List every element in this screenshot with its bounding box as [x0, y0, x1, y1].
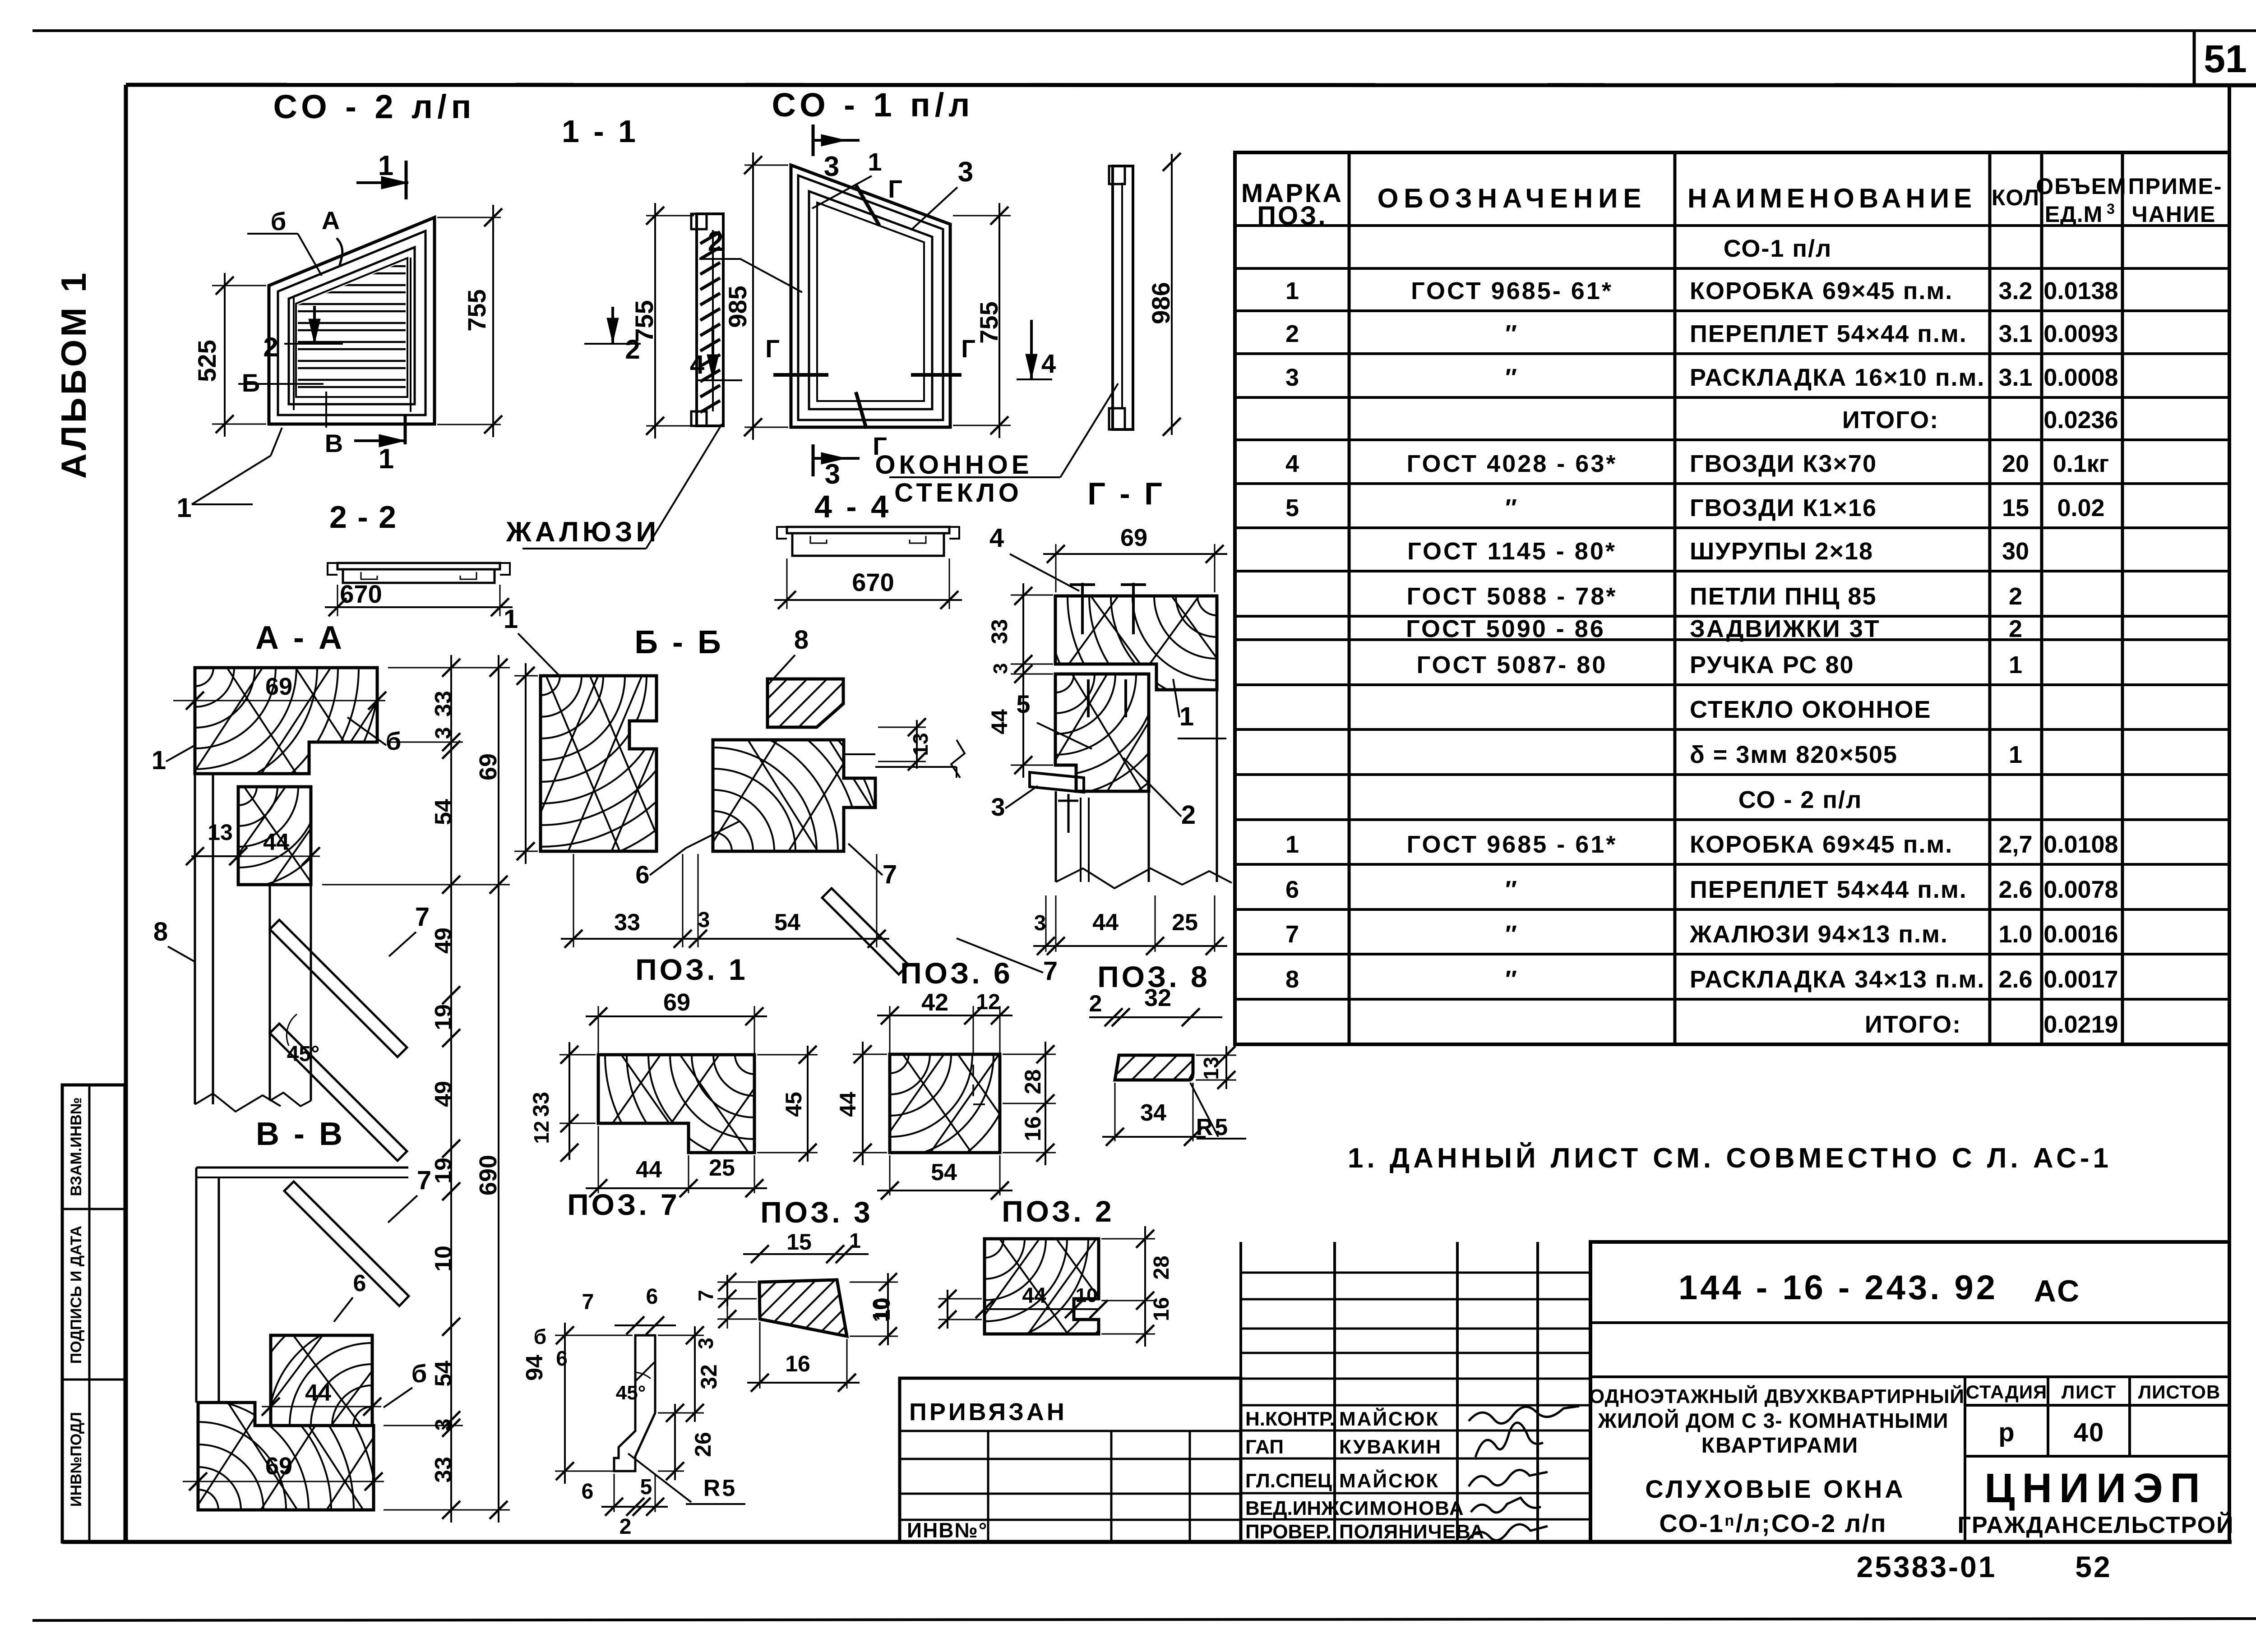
svg-text:3: 3 — [825, 459, 840, 490]
svg-text:ЛИСТ: ЛИСТ — [2062, 1381, 2117, 1403]
svg-text:1. ДАННЫЙ ЛИСТ СМ. СОВМЕСТНО С: 1. ДАННЫЙ ЛИСТ СМ. СОВМЕСТНО С Л. АС-1 — [1348, 1142, 2112, 1174]
svg-text:1: 1 — [152, 746, 166, 775]
svg-text:0.0017: 0.0017 — [2043, 966, 2118, 993]
svg-text:ГОСТ 9685 - 61*: ГОСТ 9685 - 61* — [1407, 831, 1618, 858]
svg-text:3: 3 — [698, 908, 710, 932]
svg-text:7: 7 — [582, 1290, 594, 1314]
svg-text:15: 15 — [786, 1229, 812, 1255]
svg-text:4: 4 — [690, 350, 704, 379]
svg-text:СЛУХОВЫЕ ОКНА: СЛУХОВЫЕ ОКНА — [1645, 1475, 1905, 1503]
svg-text:44: 44 — [835, 1092, 860, 1117]
svg-text:1: 1 — [379, 443, 394, 475]
svg-text:45°: 45° — [287, 1042, 320, 1066]
svg-text:2: 2 — [2009, 583, 2022, 610]
svg-text:15: 15 — [2002, 494, 2029, 521]
svg-text:32: 32 — [1144, 984, 1171, 1011]
svg-text:ОКОННОЕ: ОКОННОЕ — [875, 450, 1032, 480]
svg-text:755: 755 — [975, 301, 1003, 343]
svg-text:54: 54 — [430, 799, 457, 825]
svg-text:Б - Б: Б - Б — [634, 624, 723, 660]
svg-text:16: 16 — [1020, 1116, 1045, 1141]
svg-text:44: 44 — [987, 709, 1012, 734]
svg-text:49: 49 — [430, 928, 457, 954]
svg-text:7: 7 — [1043, 956, 1058, 986]
svg-text:28: 28 — [1020, 1069, 1045, 1094]
svg-text:13: 13 — [208, 820, 233, 845]
svg-text:54: 54 — [931, 1159, 957, 1186]
svg-text:52: 52 — [2075, 1550, 2112, 1583]
svg-text:0.0219: 0.0219 — [2043, 1011, 2118, 1038]
svg-text:3.2: 3.2 — [1998, 277, 2032, 305]
svg-text:985: 985 — [723, 286, 752, 328]
svg-text:2.6: 2.6 — [1998, 966, 2032, 993]
svg-text:28: 28 — [1150, 1255, 1174, 1279]
svg-text:ГОСТ 5087- 80: ГОСТ 5087- 80 — [1417, 651, 1608, 678]
svg-text:2: 2 — [1089, 991, 1102, 1017]
svg-text:ВЕД.ИНЖ: ВЕД.ИНЖ — [1245, 1497, 1339, 1519]
svg-text:ОДНОЭТАЖНЫЙ ДВУХКВАРТИРНЫЙ: ОДНОЭТАЖНЫЙ ДВУХКВАРТИРНЫЙ — [1589, 1384, 1965, 1407]
svg-text:1: 1 — [378, 150, 393, 181]
svg-text:АС: АС — [2034, 1274, 2081, 1308]
svg-text:КУВАКИН: КУВАКИН — [1339, 1436, 1442, 1458]
svg-text:30: 30 — [2002, 538, 2029, 565]
svg-text:13: 13 — [909, 733, 932, 756]
svg-text:р: р — [1998, 1418, 2014, 1447]
svg-text:1: 1 — [2009, 651, 2022, 678]
svg-text:2,7: 2,7 — [1998, 831, 2032, 858]
svg-text:69: 69 — [1120, 524, 1147, 551]
svg-text:7: 7 — [694, 1290, 717, 1301]
svg-text:1: 1 — [176, 493, 191, 523]
svg-text:б: б — [411, 1359, 427, 1388]
svg-text:ГВОЗДИ К3×70: ГВОЗДИ К3×70 — [1690, 450, 1877, 477]
svg-text:670: 670 — [340, 580, 382, 608]
svg-text:8: 8 — [794, 625, 809, 655]
svg-text:КОРОБКА 69×45 п.м.: КОРОБКА 69×45 п.м. — [1690, 831, 1953, 858]
svg-text:7: 7 — [883, 860, 897, 889]
svg-text:МАЙСЮК: МАЙСЮК — [1339, 1407, 1439, 1430]
svg-text:2: 2 — [619, 1515, 632, 1539]
svg-text:В - В: В - В — [256, 1116, 345, 1152]
svg-text:12: 12 — [530, 1121, 553, 1144]
svg-text:26: 26 — [690, 1432, 716, 1457]
svg-text:ПОЗ. 6: ПОЗ. 6 — [900, 956, 1013, 990]
svg-text:РАСКЛАДКА 34×13 п.м.: РАСКЛАДКА 34×13 п.м. — [1690, 966, 1985, 993]
svg-text:ПОЗ. 3: ПОЗ. 3 — [760, 1195, 873, 1229]
svg-text:986: 986 — [1146, 282, 1175, 324]
svg-text:Б: Б — [242, 369, 260, 397]
svg-text:44: 44 — [263, 829, 289, 855]
svg-text:45: 45 — [781, 1092, 806, 1117]
svg-text:2 - 2: 2 - 2 — [329, 499, 397, 535]
svg-text:3: 3 — [991, 793, 1005, 821]
svg-text:0.02: 0.02 — [2057, 494, 2104, 521]
svg-text:8: 8 — [153, 917, 168, 946]
svg-text:1: 1 — [504, 605, 518, 634]
svg-text:6: 6 — [1285, 876, 1299, 903]
svg-text:2: 2 — [708, 226, 723, 257]
svg-text:ПОЗ.: ПОЗ. — [1257, 201, 1327, 231]
svg-text:″: ″ — [1505, 966, 1519, 993]
svg-text:25383-01: 25383-01 — [1857, 1550, 1997, 1583]
svg-text:РУЧКА РС 80: РУЧКА РС 80 — [1690, 651, 1854, 678]
svg-text:0.0093: 0.0093 — [2043, 320, 2118, 347]
svg-text:8: 8 — [1285, 966, 1299, 993]
svg-text:МАЙСЮК: МАЙСЮК — [1339, 1469, 1439, 1492]
svg-text:ИТОГО:: ИТОГО: — [1865, 1011, 1961, 1038]
svg-text:ПЕРЕПЛЕТ 54×44 п.м.: ПЕРЕПЛЕТ 54×44 п.м. — [1690, 320, 1967, 347]
svg-text:3: 3 — [2107, 201, 2115, 217]
svg-text:СТАДИЯ: СТАДИЯ — [1966, 1381, 2047, 1403]
svg-text:13: 13 — [1199, 1057, 1223, 1080]
svg-text:ИНВ№°: ИНВ№° — [907, 1518, 988, 1542]
svg-text:Г: Г — [765, 334, 780, 363]
svg-text:″: ″ — [1505, 364, 1519, 391]
svg-text:3: 3 — [694, 1338, 717, 1349]
svg-text:10: 10 — [871, 1297, 894, 1320]
svg-text:40: 40 — [2074, 1418, 2105, 1447]
svg-text:5: 5 — [640, 1475, 652, 1499]
svg-text:10: 10 — [430, 1246, 457, 1272]
svg-text:670: 670 — [852, 568, 894, 596]
svg-text:33: 33 — [430, 691, 457, 717]
svg-text:3: 3 — [958, 157, 973, 188]
svg-text:ПРИМЕ-: ПРИМЕ- — [2128, 174, 2223, 199]
svg-text:ИТОГО:: ИТОГО: — [1842, 406, 1939, 434]
svg-text:2.6: 2.6 — [1998, 876, 2032, 903]
svg-text:ШУРУПЫ 2×18: ШУРУПЫ 2×18 — [1690, 538, 1873, 565]
svg-text:В: В — [325, 429, 343, 457]
svg-text:ЗАДВИЖКИ 3Т: ЗАДВИЖКИ 3Т — [1690, 615, 1881, 642]
svg-text:3: 3 — [989, 663, 1012, 674]
svg-text:1: 1 — [1179, 702, 1194, 731]
svg-text:5: 5 — [1016, 690, 1030, 718]
svg-text:КОЛ: КОЛ — [1992, 185, 2039, 210]
svg-text:б: б — [386, 727, 402, 755]
svg-text:19: 19 — [430, 1158, 457, 1184]
svg-text:49: 49 — [430, 1081, 457, 1107]
svg-text:25: 25 — [1172, 909, 1198, 936]
svg-text:42: 42 — [921, 989, 948, 1016]
svg-text:СО - 2 п/л: СО - 2 п/л — [1738, 786, 1863, 813]
svg-text:СО-1ⁿ/л;СО-2 л/п: СО-1ⁿ/л;СО-2 л/п — [1659, 1509, 1887, 1537]
svg-text:144 - 16 - 243. 92: 144 - 16 - 243. 92 — [1678, 1269, 1998, 1307]
svg-text:Н.КОНТР.: Н.КОНТР. — [1245, 1408, 1335, 1430]
svg-text:ПОЗ. 7: ПОЗ. 7 — [567, 1188, 680, 1221]
svg-text:69: 69 — [475, 753, 502, 780]
svg-text:А: А — [322, 206, 340, 235]
svg-text:СО-1 п/л: СО-1 п/л — [1724, 235, 1832, 262]
svg-text:33: 33 — [528, 1092, 554, 1117]
svg-text:4: 4 — [1041, 349, 1056, 378]
svg-text:7: 7 — [1285, 921, 1299, 948]
svg-text:19: 19 — [430, 1004, 457, 1030]
svg-text:2: 2 — [625, 334, 640, 365]
svg-text:СИМОНОВА: СИМОНОВА — [1339, 1497, 1465, 1519]
svg-text:РАСКЛАДКА 16×10 п.м.: РАСКЛАДКА 16×10 п.м. — [1690, 364, 1985, 391]
svg-text:94: 94 — [522, 1355, 548, 1381]
svg-text:ИНВ№ПОДЛ: ИНВ№ПОДЛ — [68, 1412, 85, 1507]
svg-text:ПОЛЯНИЧЕВА: ПОЛЯНИЧЕВА — [1339, 1521, 1484, 1543]
svg-text:0.0078: 0.0078 — [2043, 876, 2118, 903]
svg-text:4: 4 — [1285, 450, 1299, 477]
svg-text:33: 33 — [987, 619, 1012, 644]
svg-text:R5: R5 — [703, 1475, 737, 1501]
svg-text:6: 6 — [635, 860, 649, 889]
svg-text:Г: Г — [888, 175, 902, 203]
svg-text:3: 3 — [431, 1419, 455, 1431]
svg-text:2: 2 — [1181, 800, 1196, 830]
svg-text:7: 7 — [415, 902, 430, 932]
svg-text:32: 32 — [696, 1364, 721, 1389]
svg-text:ГАП: ГАП — [1245, 1436, 1284, 1458]
svg-text:3: 3 — [824, 151, 839, 182]
svg-text:69: 69 — [265, 673, 292, 700]
svg-text:3: 3 — [1034, 911, 1046, 935]
svg-text:ЕД.М: ЕД.М — [2045, 202, 2103, 227]
svg-text:1.0: 1.0 — [1998, 921, 2032, 948]
svg-text:0.0008: 0.0008 — [2043, 364, 2118, 391]
svg-text:6: 6 — [582, 1480, 594, 1504]
svg-text:ПЕТЛИ ПНЦ 85: ПЕТЛИ ПНЦ 85 — [1690, 583, 1877, 610]
svg-text:45°: 45° — [616, 1382, 646, 1404]
svg-text:б: б — [534, 1325, 546, 1348]
svg-text:0.0016: 0.0016 — [2043, 921, 2118, 948]
svg-text:4 - 4: 4 - 4 — [814, 489, 891, 524]
svg-text:δ = 3мм 820×505: δ = 3мм 820×505 — [1690, 741, 1898, 768]
svg-text:ЖИЛОЙ ДОМ С 3- КОМНАТНЫМИ: ЖИЛОЙ ДОМ С 3- КОМНАТНЫМИ — [1598, 1409, 1949, 1432]
svg-text:16: 16 — [785, 1351, 810, 1376]
svg-text:33: 33 — [430, 1457, 457, 1483]
svg-text:34: 34 — [1140, 1100, 1166, 1126]
svg-text:ОБОЗНАЧЕНИЕ: ОБОЗНАЧЕНИЕ — [1378, 183, 1647, 213]
svg-text:4: 4 — [989, 523, 1004, 553]
svg-text:ЧАНИЕ: ЧАНИЕ — [2132, 202, 2216, 227]
svg-text:ПЕРЕПЛЕТ 54×44 п.м.: ПЕРЕПЛЕТ 54×44 п.м. — [1690, 876, 1967, 903]
svg-text:3.1: 3.1 — [1998, 320, 2032, 347]
svg-text:755: 755 — [462, 289, 491, 331]
svg-text:7: 7 — [417, 1166, 431, 1195]
svg-text:1: 1 — [1285, 831, 1299, 858]
svg-text:ПОДПИСЬ И ДАТА: ПОДПИСЬ И ДАТА — [68, 1226, 85, 1364]
svg-text:3: 3 — [1285, 364, 1299, 391]
svg-text:20: 20 — [2002, 450, 2029, 477]
svg-text:СО - 1 п/л: СО - 1 п/л — [772, 86, 975, 124]
svg-text:ЛИСТОВ: ЛИСТОВ — [2138, 1381, 2221, 1403]
svg-text:ВЗАМ.ИНВ№: ВЗАМ.ИНВ№ — [68, 1097, 85, 1196]
svg-text:ГОСТ 5090 - 86: ГОСТ 5090 - 86 — [1406, 615, 1605, 642]
svg-text:ПОЗ. 2: ПОЗ. 2 — [1002, 1195, 1114, 1228]
svg-text:Г: Г — [961, 334, 975, 363]
svg-text:0.0236: 0.0236 — [2043, 406, 2118, 434]
svg-text:ГВОЗДИ К1×16: ГВОЗДИ К1×16 — [1690, 494, 1877, 521]
svg-text:1: 1 — [1285, 277, 1299, 305]
svg-text:0.0138: 0.0138 — [2043, 277, 2118, 305]
svg-text:ГОСТ 1145 - 80*: ГОСТ 1145 - 80* — [1407, 538, 1617, 565]
svg-text:25: 25 — [709, 1155, 735, 1181]
svg-text:3: 3 — [431, 727, 455, 739]
svg-text:690: 690 — [475, 1155, 502, 1195]
svg-text:ПОЗ. 1: ПОЗ. 1 — [635, 953, 748, 986]
svg-text:ГРАЖДАНСЕЛЬСТРОЙ: ГРАЖДАНСЕЛЬСТРОЙ — [1958, 1512, 2234, 1538]
svg-text:″: ″ — [1505, 921, 1519, 948]
svg-text:″: ″ — [1505, 494, 1519, 521]
svg-text:СТЕКЛО: СТЕКЛО — [894, 478, 1022, 508]
svg-text:ЖАЛЮЗИ 94×13 п.м.: ЖАЛЮЗИ 94×13 п.м. — [1689, 921, 1948, 948]
svg-text:0.1кг: 0.1кг — [2053, 450, 2109, 477]
svg-text:69: 69 — [265, 1453, 292, 1480]
svg-text:НАИМЕНОВАНИЕ: НАИМЕНОВАНИЕ — [1687, 183, 1976, 213]
svg-text:СО - 2 л/п: СО - 2 л/п — [273, 88, 476, 125]
svg-text:1 - 1: 1 - 1 — [562, 114, 638, 149]
svg-text:ГОСТ 9685- 61*: ГОСТ 9685- 61* — [1411, 277, 1613, 305]
svg-text:ГЛ.СПЕЦ.: ГЛ.СПЕЦ. — [1245, 1470, 1337, 1492]
svg-text:51: 51 — [2204, 37, 2247, 81]
svg-text:КВАРТИРАМИ: КВАРТИРАМИ — [1701, 1434, 1858, 1458]
svg-text:б: б — [271, 207, 287, 235]
svg-text:″: ″ — [1505, 320, 1519, 347]
svg-text:0.0108: 0.0108 — [2043, 831, 2118, 858]
svg-text:10: 10 — [1076, 1284, 1098, 1306]
svg-text:А - А: А - А — [255, 620, 345, 656]
svg-text:2: 2 — [2009, 615, 2022, 642]
svg-text:1: 1 — [2009, 741, 2022, 768]
svg-text:ГОСТ 4028 - 63*: ГОСТ 4028 - 63* — [1407, 450, 1618, 477]
svg-text:3.1: 3.1 — [1998, 364, 2032, 391]
svg-text:44: 44 — [1092, 909, 1119, 936]
svg-text:12: 12 — [976, 990, 1000, 1014]
svg-text:СТЕКЛО ОКОННОЕ: СТЕКЛО ОКОННОЕ — [1690, 696, 1932, 723]
svg-text:525: 525 — [193, 340, 221, 382]
svg-text:6: 6 — [646, 1285, 658, 1309]
svg-text:54: 54 — [774, 909, 800, 936]
svg-text:ПРИВЯЗАН: ПРИВЯЗАН — [909, 1398, 1067, 1426]
svg-text:ПРОВЕР.: ПРОВЕР. — [1245, 1521, 1331, 1543]
svg-text:6: 6 — [353, 1270, 366, 1297]
svg-text:2: 2 — [263, 332, 278, 362]
svg-text:ОБЪЕМ: ОБЪЕМ — [2036, 174, 2127, 199]
svg-text:ГОСТ 5088 - 78*: ГОСТ 5088 - 78* — [1407, 583, 1618, 610]
svg-text:″: ″ — [1505, 876, 1519, 903]
svg-text:1: 1 — [868, 148, 882, 176]
svg-text:33: 33 — [614, 909, 640, 936]
svg-text:ЖАЛЮЗИ: ЖАЛЮЗИ — [506, 517, 660, 548]
svg-text:КОРОБКА 69×45 п.м.: КОРОБКА 69×45 п.м. — [1690, 277, 1953, 305]
svg-text:16: 16 — [1150, 1297, 1174, 1321]
svg-text:5: 5 — [1285, 494, 1299, 521]
svg-text:АЛЬБОМ 1: АЛЬБОМ 1 — [54, 270, 93, 479]
svg-text:2: 2 — [1285, 320, 1299, 347]
svg-text:Г - Г: Г - Г — [1087, 476, 1165, 511]
svg-text:44: 44 — [305, 1380, 331, 1406]
svg-text:44: 44 — [1022, 1284, 1046, 1308]
svg-text:ЦНИИЭП: ЦНИИЭП — [1984, 1465, 2207, 1511]
svg-text:44: 44 — [636, 1157, 662, 1183]
svg-text:54: 54 — [430, 1361, 457, 1387]
svg-text:69: 69 — [663, 989, 690, 1016]
